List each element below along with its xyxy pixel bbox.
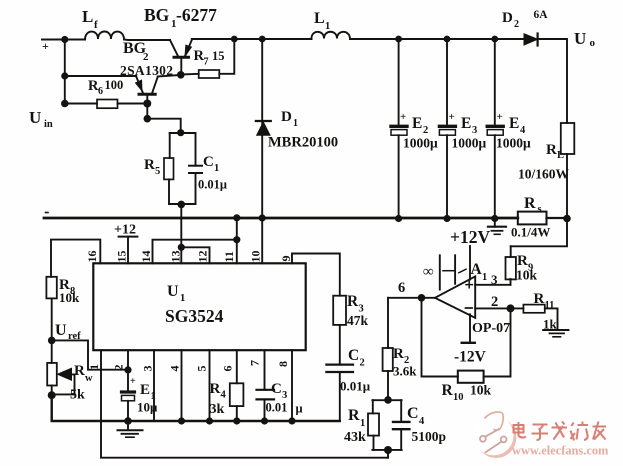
svg-text:0.01μ: 0.01μ (198, 178, 227, 192)
svg-text:1: 1 (360, 418, 365, 429)
svg-text:4: 4 (221, 390, 227, 401)
svg-text:D: D (502, 10, 513, 26)
power +12V flag on mid rail (488, 219, 506, 235)
wire R1C4 top bar (372, 399, 401, 401)
pin 5 wire (206, 350, 213, 424)
label R3 (347, 293, 369, 328)
pin 1 wire feedback (101, 350, 388, 458)
svg-text:7: 7 (204, 57, 209, 68)
label E4 (496, 111, 531, 151)
svg-text:1000μ: 1000μ (452, 136, 487, 151)
svg-text:14: 14 (139, 251, 153, 263)
svg-text:16: 16 (85, 251, 99, 263)
node junction left low (61, 100, 69, 108)
pin 10 wire (261, 218, 263, 263)
resistor Rs (518, 212, 547, 225)
resistor R5 (164, 133, 174, 204)
node junction mid rail E3 (443, 215, 450, 222)
wire top rail middle (192, 38, 312, 40)
wire Rs to output column (547, 217, 568, 219)
watermark text elecfans chinese (514, 422, 607, 441)
svg-text:6: 6 (398, 280, 405, 296)
wire Uref to pin2 (52, 340, 128, 369)
svg-text:R: R (74, 363, 85, 379)
svg-text:6A: 6A (534, 9, 549, 21)
wire BG2 emitter feed (65, 75, 136, 77)
pin 14 wire (153, 240, 237, 264)
svg-text:47k: 47k (347, 313, 369, 328)
label L1 (314, 10, 330, 32)
svg-text:OP-07: OP-07 (472, 321, 510, 336)
inductor Lf (85, 32, 170, 41)
pin label 6 (221, 366, 235, 372)
svg-text:C: C (271, 381, 282, 397)
wire top rail right (350, 38, 524, 40)
wire feedback R10 left (422, 298, 458, 377)
resistor R8 (46, 277, 56, 341)
svg-text:6: 6 (221, 366, 235, 372)
svg-text:2: 2 (143, 51, 149, 63)
svg-text:11: 11 (545, 300, 555, 311)
label Uo (574, 29, 596, 49)
svg-text:C: C (203, 154, 214, 170)
pin 11 wire (236, 218, 238, 263)
node junction R5C1 top (177, 129, 184, 136)
node junction BG1 base (177, 71, 185, 79)
label R6 100 (88, 78, 123, 97)
label D1 (281, 109, 298, 129)
node junction top E3 (444, 36, 451, 43)
wire R5C1 top bar (170, 132, 196, 134)
wire ground rail bottom (52, 395, 340, 421)
watermark logo elecfans (474, 412, 517, 458)
wire drive jog (147, 119, 180, 133)
label R10 (442, 382, 492, 403)
label C3 (266, 381, 303, 416)
svg-text:15: 15 (212, 49, 225, 63)
pin label 14 (139, 251, 153, 263)
label Uin (29, 108, 53, 130)
pin 3 wire (153, 350, 155, 421)
node junction drive (144, 115, 152, 123)
node junction pot bottom (48, 391, 56, 399)
node junction top E4 (491, 36, 498, 43)
node junction top1 (61, 36, 68, 43)
capacitor E1 (122, 392, 135, 421)
svg-text:0.01: 0.01 (266, 401, 288, 415)
svg-text:R: R (210, 381, 221, 397)
pin label 3 (141, 366, 155, 372)
svg-text:1k: 1k (543, 317, 558, 332)
op-amp A1 (435, 276, 475, 318)
ground symbol main (118, 421, 143, 437)
svg-text:s: s (538, 204, 542, 215)
wire top rail left (65, 39, 85, 41)
label +12V opamp (450, 227, 490, 247)
svg-text:+: + (42, 39, 49, 53)
node junction E1 gnd (124, 417, 132, 425)
svg-text:4: 4 (419, 416, 425, 427)
node junction Uref (48, 337, 56, 345)
wire R6 row (65, 103, 97, 105)
svg-text:8: 8 (276, 361, 290, 367)
label node 3 (491, 272, 498, 287)
resistor R3 (333, 296, 346, 325)
label Rs (524, 195, 542, 215)
node junction R1C4 top (384, 396, 392, 404)
svg-text:4: 4 (520, 125, 526, 136)
node junction R5C1 bottom (178, 201, 186, 209)
svg-text:o: o (590, 37, 596, 49)
svg-text:9: 9 (279, 256, 293, 262)
label RL value (518, 167, 570, 182)
label D2 6A (502, 9, 548, 30)
capacitor E4 (487, 39, 503, 219)
label R11 (534, 291, 558, 332)
svg-text:0.01μ: 0.01μ (340, 379, 371, 394)
pin label 10 (249, 251, 263, 263)
svg-text:μ: μ (296, 402, 303, 416)
svg-text:3: 3 (472, 125, 477, 136)
svg-text:6: 6 (98, 86, 103, 97)
capacitor E3 (439, 39, 455, 219)
svg-text:2: 2 (514, 19, 519, 30)
svg-text:3.6k: 3.6k (393, 364, 417, 379)
pin 8 wire (288, 350, 295, 424)
wire base node down (146, 104, 148, 119)
svg-text:1000μ: 1000μ (496, 136, 531, 151)
label R7 15 (194, 48, 225, 68)
svg-text:2: 2 (423, 125, 428, 136)
label infinity (423, 264, 434, 280)
label E3 (449, 111, 487, 151)
pin label 11 (222, 251, 236, 262)
svg-text:R: R (347, 293, 359, 310)
svg-text:R: R (546, 142, 557, 158)
label E2 (400, 111, 438, 151)
svg-text:15: 15 (115, 251, 129, 263)
svg-text:L: L (557, 150, 564, 161)
svg-text:ref: ref (68, 331, 81, 342)
svg-text:3: 3 (141, 366, 155, 372)
svg-text:3k: 3k (210, 402, 225, 417)
node mid rail tick (46, 212, 49, 214)
node + input terminal (42, 39, 65, 41)
power +12V opamp lead (469, 246, 471, 280)
label BG1-6277 (144, 5, 217, 30)
svg-text:5k: 5k (70, 388, 85, 403)
pin label 1 (87, 364, 101, 370)
node junction inverting (507, 304, 515, 312)
svg-text:1: 1 (482, 272, 487, 283)
node junction top D1 (259, 36, 266, 43)
pin 2 wire (127, 350, 129, 390)
svg-text:R: R (442, 382, 454, 399)
svg-text:f: f (94, 19, 98, 31)
label node 2 (491, 294, 498, 310)
svg-text:1: 1 (293, 118, 298, 129)
label Lf (82, 7, 98, 31)
svg-text:-12V: -12V (454, 349, 487, 366)
svg-text:5: 5 (195, 366, 209, 372)
label +12 pin15 (114, 223, 136, 238)
label -12V (454, 349, 487, 366)
pin 15 wire +12 (119, 237, 138, 264)
label R4 (210, 381, 227, 417)
transistor BG2 (136, 77, 158, 104)
wire R5C1 bottom bar (169, 203, 196, 205)
label R2 (393, 346, 417, 379)
svg-text:U: U (55, 322, 67, 339)
svg-text:1: 1 (325, 21, 330, 32)
svg-text:+: + (449, 111, 455, 123)
svg-text:U: U (574, 29, 586, 48)
svg-text:E: E (509, 115, 519, 132)
resistor R6 (97, 100, 118, 109)
label 2SA1302 (120, 63, 173, 78)
wire BG2 collector to node (158, 75, 181, 77)
svg-text:12: 12 (196, 251, 210, 263)
transistor BG1 (170, 40, 192, 75)
pin 13 node junction (178, 244, 185, 251)
label R5 (144, 157, 160, 177)
svg-text:100: 100 (105, 78, 124, 92)
wire R9 to Rs node (511, 219, 567, 247)
svg-text:+12V: +12V (450, 227, 490, 247)
svg-text:11: 11 (222, 251, 236, 262)
capacitor C4 (393, 400, 409, 450)
svg-text:2: 2 (491, 294, 498, 310)
pin label 15 (115, 251, 129, 263)
node junction mid rail E4 (491, 215, 498, 222)
label E1 (130, 376, 158, 415)
resistor R10 (458, 371, 484, 383)
resistor R7 (199, 70, 220, 78)
svg-text:5: 5 (155, 166, 160, 177)
capacitor C3 on pin 7 (257, 350, 275, 424)
label OP-07 (472, 321, 510, 336)
wire mid rail (44, 217, 518, 220)
node junction pin11 bend (233, 236, 240, 243)
label C2 (340, 347, 371, 394)
pin label 16 (85, 251, 99, 263)
svg-text:BG: BG (144, 5, 170, 25)
potentiometer RW (47, 340, 74, 395)
svg-text:10: 10 (249, 251, 263, 263)
wire R1C4 bottom bar (372, 449, 401, 451)
svg-text:L: L (82, 7, 93, 26)
pin label 5 (195, 366, 209, 372)
pin 4 wire (178, 350, 185, 424)
label BG2 (123, 40, 149, 63)
svg-text:C: C (348, 347, 359, 364)
inductor L1 (311, 32, 350, 39)
label A1 (471, 261, 488, 283)
label MBR20100 (268, 135, 338, 151)
label Rs value (511, 225, 550, 240)
label Uref (55, 322, 81, 342)
resistor R11 (523, 305, 544, 313)
resistor R9 (506, 246, 516, 284)
power -12V opamp lead (462, 314, 475, 343)
node junction left mid (61, 72, 68, 79)
svg-text:-6277: -6277 (176, 5, 217, 25)
resistor RL (561, 123, 575, 219)
svg-text:+: + (497, 111, 503, 123)
diode D2 (524, 34, 538, 46)
node junction output bottom (563, 215, 571, 223)
node junction BG2 base (143, 100, 151, 108)
svg-text:43k: 43k (344, 430, 366, 445)
wire R7 left lead (181, 73, 199, 76)
label C1 value (198, 178, 227, 192)
pin label 7 (248, 360, 262, 366)
wire R11 to ground (545, 308, 558, 329)
svg-text:3: 3 (491, 272, 498, 287)
wire output top (538, 39, 567, 123)
label U1 (167, 283, 185, 304)
svg-text:1000μ: 1000μ (403, 136, 438, 151)
pin 12 wire (181, 247, 209, 263)
pin label 9 (279, 256, 293, 262)
svg-text:R: R (534, 291, 545, 307)
node junction top R7 (231, 36, 238, 43)
capacitor C1 (189, 133, 202, 204)
svg-text:1: 1 (214, 163, 219, 174)
svg-text:C: C (407, 405, 419, 422)
wire R1C4 stub (387, 450, 389, 458)
label SG3524 (165, 306, 224, 326)
svg-text:U: U (167, 283, 179, 300)
resistor R4 on pin 6 (230, 350, 244, 424)
pin label 2 (112, 365, 126, 371)
svg-text:2: 2 (112, 365, 126, 371)
pin label 8 (276, 361, 290, 367)
pin label 4 (168, 366, 182, 372)
label plus input (42, 39, 49, 53)
svg-text:0.1/4W: 0.1/4W (511, 225, 550, 240)
label node 6 (398, 280, 405, 296)
svg-text:R: R (144, 157, 155, 173)
pin label 12 (196, 251, 210, 263)
wire inverting input 2 (475, 307, 523, 309)
wire R6 to BG2 base node (118, 103, 148, 105)
ground symbol R11 (543, 330, 568, 337)
node junction mid rail E2 (395, 215, 402, 222)
svg-text:MBR20100: MBR20100 (268, 135, 338, 151)
node junction mid rail pin11 (233, 214, 240, 221)
wire collector drive down to pin13 (180, 204, 182, 263)
svg-text:U: U (29, 108, 41, 127)
svg-text:4: 4 (168, 366, 182, 372)
resistor R2 (383, 298, 393, 400)
wire R10 right (484, 308, 511, 376)
svg-text:E: E (461, 115, 471, 132)
node junction R1C4 bottom (384, 446, 392, 454)
svg-text:10μ: 10μ (137, 400, 158, 415)
svg-text:10k: 10k (516, 268, 538, 283)
svg-text:+12: +12 (114, 223, 136, 238)
label R9 (516, 253, 538, 283)
wire node 6 (388, 297, 435, 299)
label C1 (203, 154, 219, 174)
op-amp U1 chip SG3524 (93, 263, 305, 350)
pin label 13 (169, 251, 183, 263)
wire Uin left column (64, 40, 66, 104)
capacitor E2 (391, 39, 407, 219)
node junction pin2 E1 (124, 366, 131, 373)
node junction mid rail D1 (259, 214, 266, 221)
node junction 6 (418, 294, 426, 302)
svg-text:13: 13 (169, 251, 183, 263)
pin 16 wire (51, 240, 100, 277)
svg-text:7: 7 (248, 360, 262, 366)
svg-text:R: R (348, 407, 360, 424)
svg-text:R: R (524, 195, 536, 212)
label R8 (59, 277, 80, 305)
svg-text:+: + (400, 111, 406, 123)
resistor R1 (368, 400, 379, 450)
svg-text:10/160W: 10/160W (518, 167, 570, 182)
svg-text:1: 1 (87, 364, 101, 370)
label RL (546, 142, 564, 161)
svg-text:A: A (471, 261, 483, 278)
svg-text:+: + (130, 376, 136, 387)
watermark text elecfans url (512, 444, 609, 458)
pin 9 wire (292, 254, 340, 296)
op-amp offset pins (440, 255, 466, 289)
svg-text:E: E (412, 115, 422, 132)
svg-text:in: in (44, 119, 53, 130)
svg-text:10k: 10k (470, 383, 492, 398)
wire R7 to rail (219, 39, 234, 74)
wire noninverting input 3 (475, 284, 510, 286)
svg-text:5100p: 5100p (412, 429, 447, 444)
svg-text:3: 3 (282, 390, 287, 401)
svg-text:SG3524: SG3524 (165, 306, 224, 326)
label RW (70, 363, 93, 403)
svg-text:D: D (281, 109, 292, 125)
diode D1 (256, 39, 271, 218)
svg-text:2: 2 (360, 358, 365, 369)
node junction top E2 (395, 36, 402, 43)
svg-text:2SA1302: 2SA1302 (120, 63, 173, 78)
label C4 (407, 405, 446, 444)
svg-text:w: w (85, 373, 93, 384)
svg-text:L: L (314, 10, 325, 27)
svg-text:E: E (140, 382, 150, 398)
svg-text:R: R (393, 346, 404, 362)
svg-text:10k: 10k (59, 290, 80, 305)
svg-text:10: 10 (453, 392, 464, 403)
label R1 (344, 407, 366, 445)
capacitor C2 (326, 325, 353, 421)
svg-text:1: 1 (180, 293, 185, 304)
svg-text:www.elecfans.com: www.elecfans.com (512, 444, 609, 458)
svg-text:∞: ∞ (423, 264, 434, 280)
